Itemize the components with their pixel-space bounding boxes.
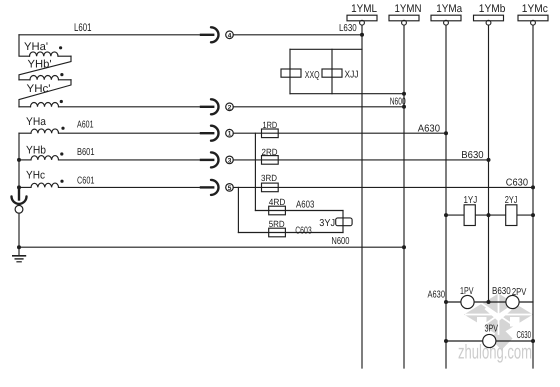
polarity dot YHb' bbox=[60, 73, 63, 76]
ground bbox=[13, 256, 26, 262]
wire N600 bottom bbox=[19, 246, 404, 248]
junction N600/1YMN bbox=[402, 105, 406, 109]
fuse 4RD bbox=[269, 206, 286, 215]
voltmeter 2PV bbox=[506, 295, 519, 308]
junction PV2/1YMa bbox=[444, 339, 448, 343]
svg-text:A630: A630 bbox=[428, 290, 446, 301]
relay 3YJ bbox=[336, 218, 352, 226]
connector pin 3 (B601 row) bbox=[201, 152, 233, 167]
junction PV1/1YMb bbox=[487, 300, 491, 304]
wire PV row 2 bbox=[446, 340, 533, 342]
wire A601 to 1YMa bbox=[233, 132, 446, 134]
fuse 2RD bbox=[262, 156, 279, 165]
wire L601 bbox=[19, 34, 202, 36]
svg-text:4: 4 bbox=[228, 32, 232, 39]
connector pin 2 (N600 row) bbox=[201, 99, 233, 114]
svg-text:5: 5 bbox=[228, 185, 232, 192]
junction YJ/1YMa bbox=[444, 213, 448, 217]
wire neutral down bbox=[18, 213, 20, 255]
secondary star bus bbox=[18, 133, 20, 187]
svg-text:N600: N600 bbox=[331, 236, 349, 247]
junction YJ/1YMc bbox=[531, 213, 535, 217]
wire 4RD row A603 bbox=[255, 210, 343, 212]
polarity dot YHa bbox=[61, 127, 64, 130]
svg-text:2: 2 bbox=[228, 104, 232, 111]
svg-text:1YJ: 1YJ bbox=[464, 195, 478, 206]
wire PV row 1 bbox=[446, 301, 533, 303]
svg-text:3RD: 3RD bbox=[261, 173, 277, 183]
svg-text:C603: C603 bbox=[295, 225, 312, 236]
svg-text:1YML: 1YML bbox=[351, 3, 377, 15]
junction YJ/1YMb bbox=[487, 213, 491, 217]
tap wire A601 to 4RD bbox=[254, 133, 256, 210]
junction N600 bottom/1YMN bbox=[402, 245, 406, 249]
wire C601 to 1YMc bbox=[233, 186, 533, 188]
svg-text:A630: A630 bbox=[418, 123, 441, 134]
svg-text:L601: L601 bbox=[74, 22, 92, 34]
relay 2YJ bbox=[506, 205, 517, 226]
svg-text:5RD: 5RD bbox=[269, 219, 285, 229]
zigzag wire a-b bbox=[19, 56, 71, 80]
XXQ XJJ block bottom rail bbox=[290, 93, 404, 95]
svg-text:1: 1 bbox=[228, 131, 232, 138]
svg-text:YHc: YHc bbox=[26, 170, 45, 182]
junction N600 bottom left bbox=[17, 245, 21, 249]
junction PV1/1YMa bbox=[444, 300, 448, 304]
svg-text:YHb': YHb' bbox=[28, 59, 52, 71]
svg-text:1YMa: 1YMa bbox=[436, 3, 463, 15]
wire 3YJ vertical bbox=[342, 211, 344, 233]
relay 1YJ bbox=[464, 205, 475, 226]
busbar 1YMc bbox=[518, 15, 548, 368]
damper XXQ bbox=[281, 69, 301, 77]
connector pin 4 (L601 row) bbox=[201, 27, 233, 42]
svg-text:A603: A603 bbox=[296, 199, 315, 210]
fuse 3RD bbox=[262, 183, 279, 192]
busbar 1YMN bbox=[389, 15, 419, 368]
svg-text:YHc': YHc' bbox=[27, 83, 51, 95]
svg-text:YHa: YHa bbox=[26, 116, 47, 128]
winding YHa' bbox=[19, 35, 71, 56]
winding YHc bbox=[19, 183, 202, 187]
wire L630 bbox=[233, 34, 362, 36]
svg-text:1YMc: 1YMc bbox=[522, 3, 548, 15]
connector pin 1 (A601 row) bbox=[201, 126, 233, 141]
connector pin 5 (C601 row) bbox=[201, 180, 233, 195]
svg-text:C601: C601 bbox=[77, 176, 95, 187]
svg-text:YHb: YHb bbox=[26, 145, 46, 157]
busbar 1YMb bbox=[474, 15, 504, 302]
winding YHb' bbox=[19, 75, 71, 79]
svg-text:XJJ: XJJ bbox=[345, 70, 359, 81]
svg-text:B601: B601 bbox=[77, 147, 95, 158]
svg-text:1PV: 1PV bbox=[460, 286, 474, 297]
junction B630/1YMb bbox=[487, 158, 491, 162]
svg-text:4RD: 4RD bbox=[269, 197, 286, 207]
winding YHb bbox=[19, 156, 202, 160]
svg-text:L630: L630 bbox=[339, 23, 357, 34]
junction bottom rail/1YMN bbox=[402, 92, 406, 96]
svg-text:1YMN: 1YMN bbox=[395, 3, 422, 15]
fuse 5RD bbox=[269, 228, 286, 237]
svg-text:B630: B630 bbox=[492, 286, 511, 297]
watermark logo diamond bbox=[464, 294, 533, 351]
busbar 1YML bbox=[347, 15, 377, 368]
junction bus/YHb bbox=[17, 158, 21, 162]
svg-text:3: 3 bbox=[228, 157, 232, 164]
voltmeter 3PV bbox=[483, 334, 496, 347]
svg-text:YHa': YHa' bbox=[24, 41, 48, 53]
svg-text:A601: A601 bbox=[77, 120, 94, 131]
wire 5RD row C603 bbox=[238, 232, 343, 234]
voltmeter 1PV bbox=[461, 295, 474, 308]
fuse 1RD bbox=[262, 129, 279, 138]
tap wire C601 to 5RD bbox=[237, 187, 239, 232]
busbar 1YMa bbox=[431, 15, 461, 368]
junction PV2/1YMc bbox=[531, 339, 535, 343]
svg-text:XXQ: XXQ bbox=[305, 70, 320, 81]
wire N600 upper bbox=[233, 106, 404, 108]
junction bus/YHc bbox=[17, 185, 21, 189]
polarity dot YHc bbox=[60, 180, 63, 183]
svg-text:1YMb: 1YMb bbox=[479, 3, 506, 15]
junction C630/1YMc bbox=[531, 185, 535, 189]
svg-text:1RD: 1RD bbox=[263, 120, 278, 130]
polarity dot YHb bbox=[60, 152, 63, 155]
svg-text:3YJ: 3YJ bbox=[319, 218, 335, 229]
XXQ XJJ block top rail bbox=[290, 48, 362, 50]
svg-text:2YJ: 2YJ bbox=[505, 195, 518, 206]
polarity dot YHc' bbox=[60, 100, 63, 103]
junction A630/1YMa bbox=[444, 131, 448, 135]
svg-text:C630: C630 bbox=[506, 178, 529, 189]
wire B601 to 1YMb bbox=[233, 159, 488, 161]
branch XXQ bbox=[289, 49, 291, 93]
zigzag wire b-c bbox=[19, 80, 71, 107]
svg-text:3PV: 3PV bbox=[485, 324, 499, 335]
svg-text:2RD: 2RD bbox=[262, 147, 278, 157]
svg-text:C630: C630 bbox=[517, 330, 532, 341]
svg-text:B630: B630 bbox=[461, 150, 484, 161]
polarity dot YHa' bbox=[59, 46, 62, 49]
wire YJ row bbox=[446, 214, 533, 216]
connector pin 6 (neutral, vertical) bbox=[12, 187, 27, 213]
winding YHc' bbox=[19, 103, 202, 107]
junction L630/1YML bbox=[360, 33, 364, 37]
winding YHa bbox=[19, 129, 202, 133]
relay XJJ bbox=[322, 69, 342, 77]
branch XJJ bbox=[331, 49, 333, 93]
svg-text:2PV: 2PV bbox=[512, 287, 527, 298]
